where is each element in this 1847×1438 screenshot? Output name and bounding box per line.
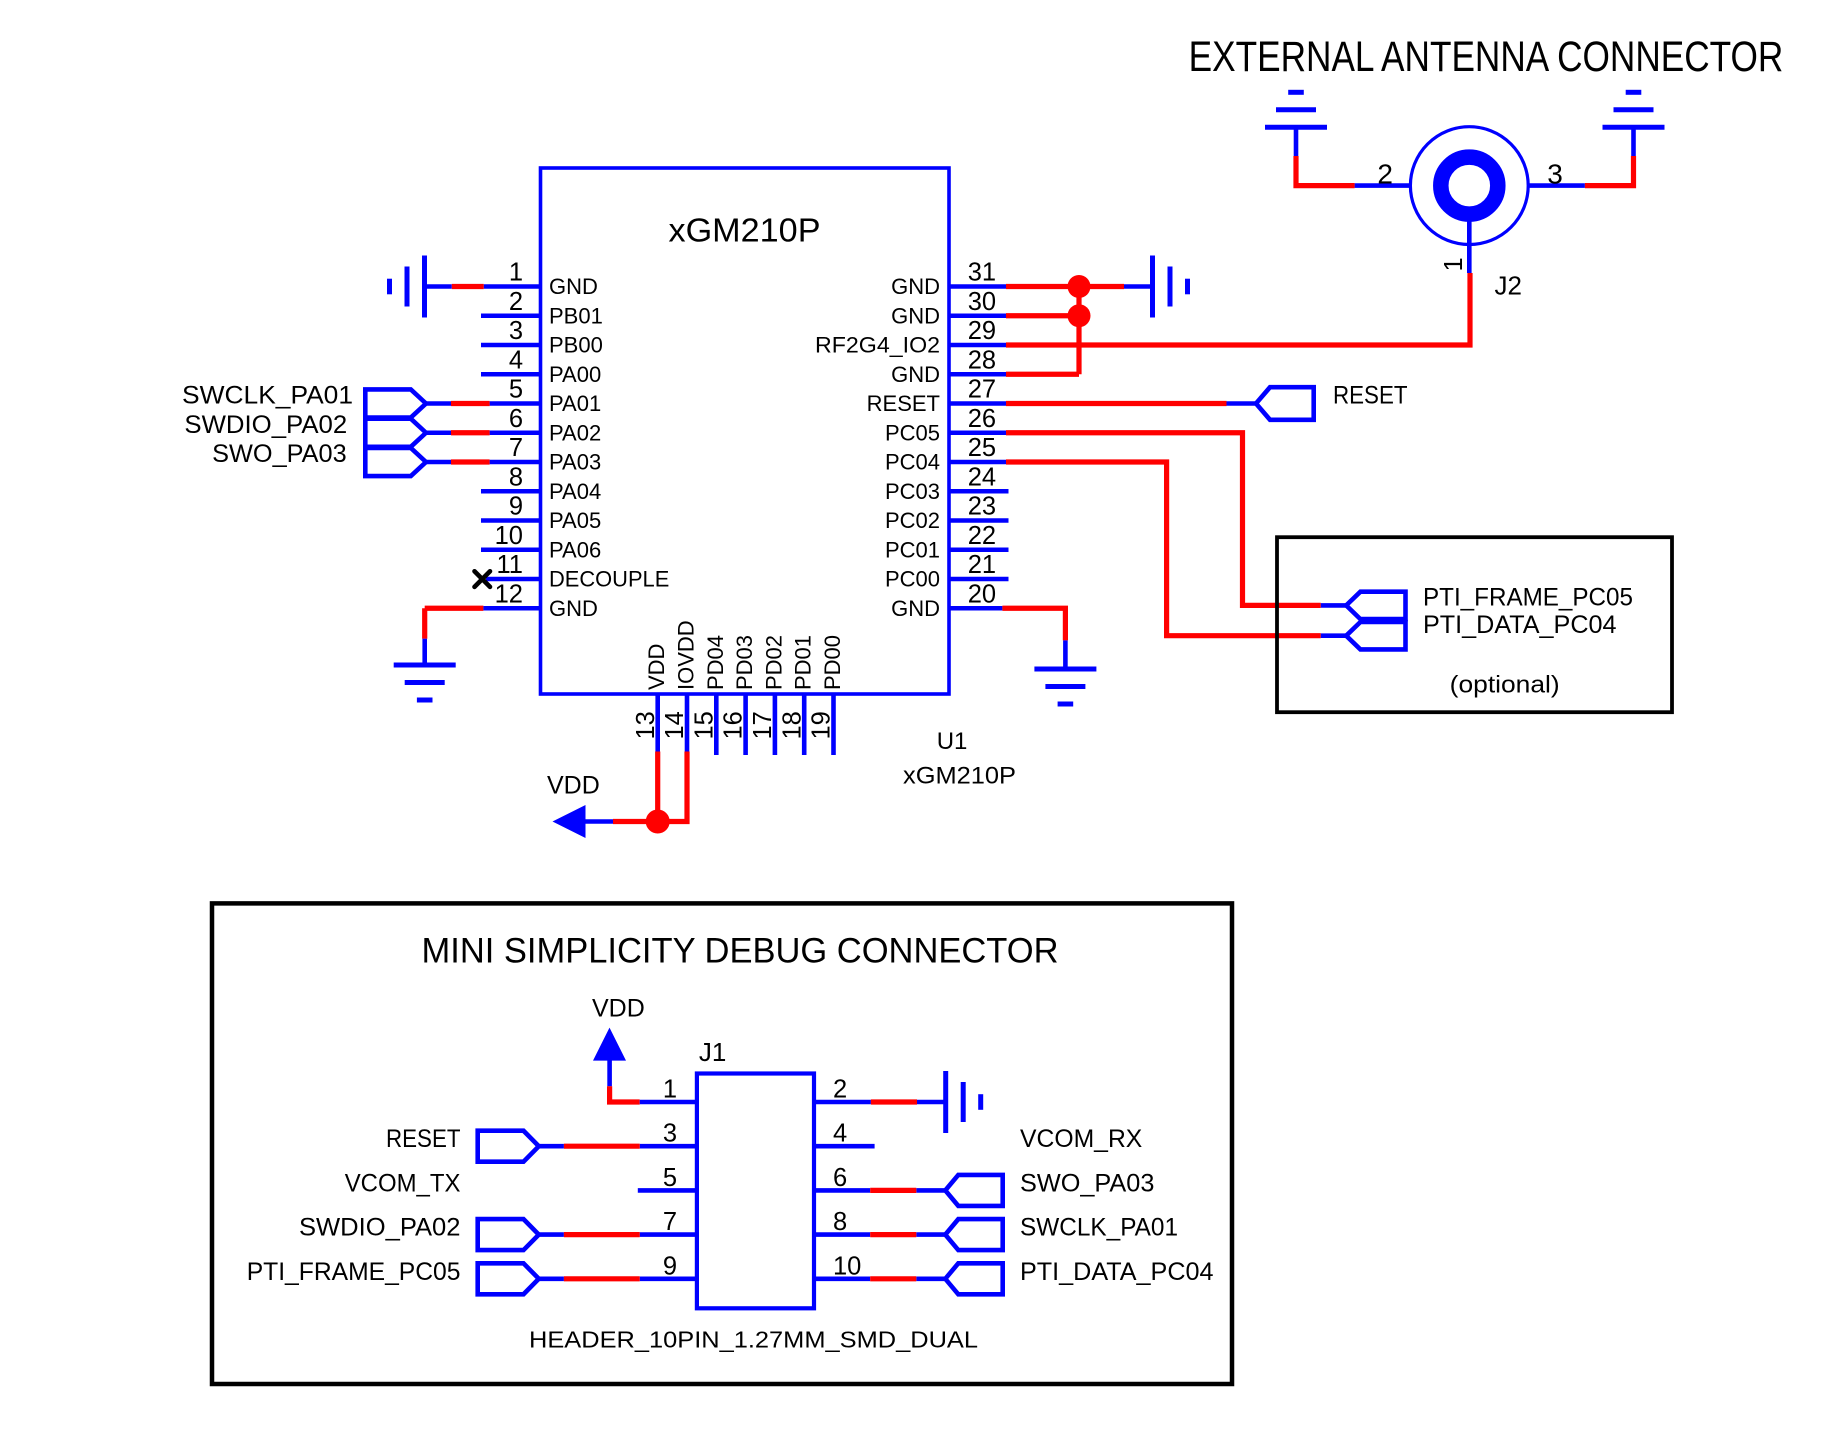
svg-text:RESET: RESET bbox=[386, 1125, 461, 1153]
svg-text:2: 2 bbox=[833, 1076, 847, 1104]
svg-text:10: 10 bbox=[833, 1252, 861, 1280]
svg-text:GND: GND bbox=[891, 362, 940, 387]
svg-text:18: 18 bbox=[778, 711, 806, 739]
svg-text:PB01: PB01 bbox=[549, 303, 603, 328]
svg-text:VCOM_RX: VCOM_RX bbox=[1020, 1125, 1143, 1153]
svg-text:PB00: PB00 bbox=[549, 333, 603, 358]
svg-text:PD01: PD01 bbox=[791, 635, 816, 690]
svg-text:17: 17 bbox=[749, 711, 777, 739]
svg-text:6: 6 bbox=[509, 405, 523, 433]
svg-text:20: 20 bbox=[968, 580, 996, 608]
svg-text:27: 27 bbox=[968, 376, 996, 404]
svg-text:19: 19 bbox=[808, 711, 836, 739]
svg-text:PC03: PC03 bbox=[885, 479, 940, 504]
svg-text:SWDIO_PA02: SWDIO_PA02 bbox=[299, 1214, 461, 1242]
svg-text:26: 26 bbox=[968, 405, 996, 433]
svg-text:VDD: VDD bbox=[547, 771, 600, 799]
svg-text:9: 9 bbox=[509, 493, 523, 521]
svg-text:VDD: VDD bbox=[644, 644, 669, 690]
svg-text:PD02: PD02 bbox=[761, 635, 786, 690]
svg-text:11: 11 bbox=[497, 551, 523, 579]
svg-text:xGM210P: xGM210P bbox=[903, 763, 1016, 790]
svg-text:PA00: PA00 bbox=[549, 362, 601, 387]
svg-text:1: 1 bbox=[509, 259, 523, 287]
svg-text:GND: GND bbox=[549, 596, 598, 621]
svg-text:IOVDD: IOVDD bbox=[674, 620, 699, 690]
svg-text:4: 4 bbox=[833, 1120, 847, 1148]
svg-text:EXTERNAL ANTENNA CONNECTOR: EXTERNAL ANTENNA CONNECTOR bbox=[1189, 34, 1784, 81]
svg-text:PTI_FRAME_PC05: PTI_FRAME_PC05 bbox=[1423, 584, 1633, 612]
svg-text:PC04: PC04 bbox=[885, 450, 940, 475]
svg-text:HEADER_10PIN_1.27MM_SMD_DUAL: HEADER_10PIN_1.27MM_SMD_DUAL bbox=[529, 1327, 978, 1353]
svg-text:5: 5 bbox=[509, 376, 523, 404]
svg-text:PC05: PC05 bbox=[885, 420, 940, 445]
svg-text:21: 21 bbox=[968, 551, 996, 579]
svg-text:28: 28 bbox=[968, 346, 996, 374]
svg-text:VDD: VDD bbox=[592, 994, 645, 1022]
svg-text:SWO_PA03: SWO_PA03 bbox=[1020, 1169, 1154, 1197]
svg-text:24: 24 bbox=[968, 463, 996, 491]
svg-text:23: 23 bbox=[968, 493, 996, 521]
svg-text:GND: GND bbox=[891, 303, 940, 328]
svg-text:PTI_FRAME_PC05: PTI_FRAME_PC05 bbox=[247, 1258, 461, 1286]
svg-text:4: 4 bbox=[509, 346, 523, 374]
svg-text:MINI SIMPLICITY DEBUG CONNECTO: MINI SIMPLICITY DEBUG CONNECTOR bbox=[422, 932, 1059, 971]
svg-text:RESET: RESET bbox=[1333, 382, 1408, 410]
svg-text:2: 2 bbox=[509, 288, 523, 316]
svg-text:xGM210P: xGM210P bbox=[669, 212, 821, 249]
svg-text:PD04: PD04 bbox=[703, 635, 728, 690]
svg-text:PC01: PC01 bbox=[885, 537, 940, 562]
svg-text:GND: GND bbox=[549, 274, 598, 299]
svg-text:1: 1 bbox=[1440, 257, 1468, 271]
svg-text:J2: J2 bbox=[1495, 271, 1522, 301]
svg-text:PA06: PA06 bbox=[549, 537, 601, 562]
svg-text:VCOM_TX: VCOM_TX bbox=[345, 1169, 461, 1197]
svg-text:14: 14 bbox=[661, 711, 689, 739]
svg-text:PA02: PA02 bbox=[549, 420, 601, 445]
svg-text:3: 3 bbox=[663, 1120, 677, 1148]
svg-text:PD00: PD00 bbox=[820, 635, 845, 690]
svg-text:SWCLK_PA01: SWCLK_PA01 bbox=[1020, 1214, 1178, 1242]
svg-text:13: 13 bbox=[632, 711, 660, 739]
svg-text:15: 15 bbox=[690, 711, 718, 739]
svg-text:PA05: PA05 bbox=[549, 508, 601, 533]
svg-text:SWCLK_PA01: SWCLK_PA01 bbox=[182, 382, 353, 410]
svg-text:PD03: PD03 bbox=[732, 635, 757, 690]
svg-text:7: 7 bbox=[509, 434, 523, 462]
svg-text:6: 6 bbox=[833, 1164, 847, 1192]
svg-text:U1: U1 bbox=[937, 728, 968, 755]
svg-text:PTI_DATA_PC04: PTI_DATA_PC04 bbox=[1020, 1258, 1214, 1286]
svg-text:7: 7 bbox=[663, 1208, 677, 1236]
svg-text:RESET: RESET bbox=[867, 391, 940, 416]
svg-text:SWDIO_PA02: SWDIO_PA02 bbox=[184, 411, 347, 439]
svg-text:PA01: PA01 bbox=[549, 391, 601, 416]
svg-text:31: 31 bbox=[968, 259, 996, 287]
svg-text:3: 3 bbox=[1547, 158, 1563, 189]
svg-text:GND: GND bbox=[891, 596, 940, 621]
svg-text:2: 2 bbox=[1377, 158, 1393, 189]
svg-text:RF2G4_IO2: RF2G4_IO2 bbox=[815, 333, 940, 358]
svg-text:29: 29 bbox=[968, 317, 996, 345]
svg-text:PC00: PC00 bbox=[885, 567, 940, 592]
svg-text:PA04: PA04 bbox=[549, 479, 601, 504]
svg-text:30: 30 bbox=[968, 288, 996, 316]
svg-text:DECOUPLE: DECOUPLE bbox=[549, 567, 669, 592]
svg-text:10: 10 bbox=[495, 522, 523, 550]
svg-text:1: 1 bbox=[663, 1076, 677, 1104]
svg-text:22: 22 bbox=[968, 522, 996, 550]
svg-text:25: 25 bbox=[968, 434, 996, 462]
svg-text:PA03: PA03 bbox=[549, 450, 601, 475]
svg-text:9: 9 bbox=[663, 1252, 677, 1280]
svg-text:PTI_DATA_PC04: PTI_DATA_PC04 bbox=[1423, 611, 1617, 639]
svg-text:8: 8 bbox=[833, 1208, 847, 1236]
svg-text:SWO_PA03: SWO_PA03 bbox=[212, 440, 347, 468]
svg-text:GND: GND bbox=[891, 274, 940, 299]
svg-text:5: 5 bbox=[663, 1164, 677, 1192]
svg-text:PC02: PC02 bbox=[885, 508, 940, 533]
svg-text:8: 8 bbox=[509, 463, 523, 491]
svg-text:16: 16 bbox=[720, 711, 748, 739]
svg-text:J1: J1 bbox=[699, 1037, 726, 1067]
svg-text:3: 3 bbox=[509, 317, 523, 345]
svg-text:12: 12 bbox=[495, 580, 523, 608]
svg-text:(optional): (optional) bbox=[1450, 672, 1560, 699]
